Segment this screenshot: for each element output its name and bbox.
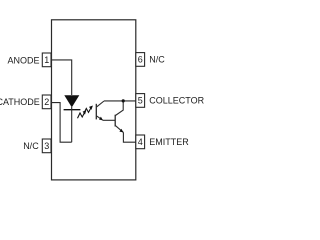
svg-text:COLLECTOR: COLLECTOR [149, 96, 204, 106]
phototransistor Q1 base bar [95, 104, 97, 120]
transistor Q2 base bar [114, 115, 116, 127]
Q2 collector diagonal and riser [115, 101, 123, 116]
pin 2 box [42, 95, 51, 109]
svg-text:3: 3 [44, 141, 49, 151]
wire Q1 emitter to Q2 base [103, 119, 115, 121]
svg-text:1: 1 [44, 55, 49, 65]
svg-text:EMITTER: EMITTER [149, 137, 189, 147]
svg-text:ANODE: ANODE [7, 56, 39, 66]
pin 6 box [136, 53, 145, 67]
Q2 emitter diagonal [115, 126, 123, 133]
LED D1 cathode bar [64, 109, 81, 111]
pin 4 box [136, 135, 145, 149]
wire LED cathode down to junction [71, 107, 73, 142]
LED D1 triangle (anode) [64, 95, 79, 107]
Q1 emitter arrowhead [99, 117, 103, 121]
package outline (DIP body) [52, 20, 136, 180]
wire pin2 right, down and along bottom to LED cathode [51, 103, 71, 143]
wire pin1 to LED anode [51, 60, 71, 95]
pin 5 box [136, 94, 145, 108]
svg-text:N/C: N/C [149, 55, 165, 65]
svg-text:4: 4 [138, 137, 143, 147]
wire Q2 emitter to pin 4 [123, 132, 135, 142]
pin 3 box [42, 139, 51, 153]
svg-text:6: 6 [138, 55, 143, 65]
Q2 emitter arrowhead [119, 129, 123, 133]
junction dot collector node [122, 99, 125, 102]
svg-text:5: 5 [138, 96, 143, 106]
Q1 emitter diagonal [97, 116, 103, 120]
Q1 collector diagonal [97, 101, 104, 107]
svg-text:N/C: N/C [23, 141, 39, 151]
pin 1 box [42, 53, 51, 67]
svg-text:CATHODE: CATHODE [0, 97, 40, 107]
wire collector to pin 5 [104, 100, 136, 102]
light arrow lower [78, 113, 85, 119]
light arrow upper [84, 108, 91, 114]
svg-text:2: 2 [44, 97, 49, 107]
